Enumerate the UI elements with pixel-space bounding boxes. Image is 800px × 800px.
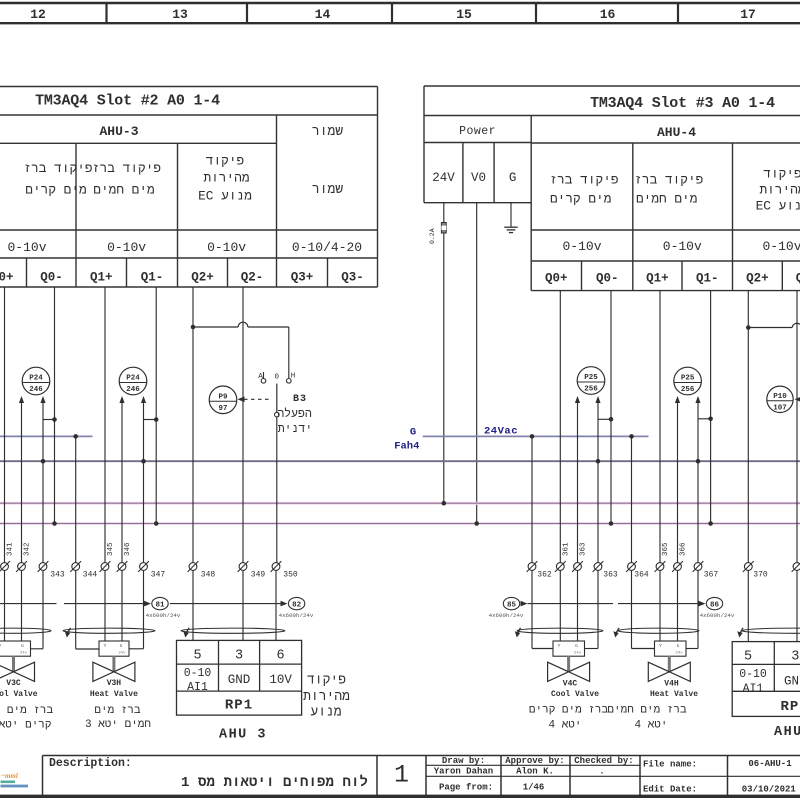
svg-text:06-AHU-1: 06-AHU-1 [748,759,792,769]
svg-text:362: 362 [537,571,552,580]
svg-text:P10: P10 [773,393,787,401]
svg-text:366: 366 [680,542,688,556]
branch 363 to Q0- right [598,418,611,420]
svg-text:0-10v: 0-10v [663,239,702,254]
svg-text:מים חמים: מים חמים [93,183,154,198]
cable shield V4C [517,628,603,633]
cable shield V4H [618,628,699,633]
terminal 341 [0,561,10,572]
wire G branch (terminal 362) [531,436,533,648]
svg-text:363: 363 [580,542,588,556]
svg-text:Checked by:: Checked by: [574,756,633,766]
terminal 370 [743,561,754,572]
svg-text:346: 346 [124,542,132,556]
svg-text:AI1: AI1 [743,682,764,695]
svg-text:342: 342 [24,542,32,556]
wire sensor c (terminal 346) [119,396,124,403]
svg-text:Q2-: Q2- [241,271,264,285]
svg-text:ברז מים: ברז מים [94,705,141,717]
bus 24V common (dark) [0,460,800,462]
branch 343 to Q0- [43,419,55,421]
junction 367-24Vcommon [696,459,701,464]
cable line valve V3H [64,603,145,605]
svg-text:Y: Y [659,643,662,649]
svg-text:Heat Valve: Heat Valve [90,690,138,699]
svg-text:G: G [21,643,24,649]
svg-text:G: G [677,643,680,649]
svg-text:246: 246 [126,386,140,394]
wire Q1+ (terminal 345) [104,287,106,641]
terminal 344 [70,561,81,572]
svg-text:15: 15 [456,7,472,22]
svg-text:EC מנוע: EC מנוע [756,199,800,214]
svg-text:17: 17 [740,7,756,22]
svg-text:81: 81 [155,601,165,609]
terminal 365 [655,561,666,572]
svg-text:107: 107 [773,404,787,412]
svg-text:.: . [599,767,604,777]
svg-text:0-10v: 0-10v [762,239,800,254]
wire sensor d (terminal 347) [141,396,146,403]
wire sensor h (terminal 367) [695,396,700,403]
cable shield RP1 [181,628,285,633]
svg-text:24V: 24V [432,171,455,185]
terminal 342 [16,561,27,572]
cable line valve V4C [521,601,528,607]
ground symbol [504,226,517,228]
svg-text:מים קרים: מים קרים [25,183,86,198]
svg-text:0-10: 0-10 [739,668,767,681]
bus G/24Vac right segment (blue) [423,435,649,437]
wire Q0+ (terminal 341) [4,287,6,641]
svg-text:256: 256 [681,386,695,394]
svg-text:File name:: File name: [643,760,697,770]
svg-text:Edit Date:: Edit Date: [643,785,697,795]
drain arrow V4H [613,628,619,638]
svg-text:5: 5 [193,649,201,664]
svg-text:AHU 3: AHU 3 [219,728,267,743]
svg-text:345: 345 [107,542,115,556]
svg-text:Q1+: Q1+ [90,271,113,285]
wire Q1+ right (terminal 365) [659,291,661,641]
svg-text:TM3AQ4 Slot #3 A0 1-4: TM3AQ4 Slot #3 A0 1-4 [590,95,775,112]
svg-text:Q2+: Q2+ [746,272,769,286]
wire 24V supply [443,203,445,223]
reference bubble P25/256 #2 [674,367,702,395]
svg-text:364: 364 [634,571,649,580]
potentiometer RP1 table [177,640,302,715]
svg-text:AHU-4: AHU-4 [657,125,696,140]
wire sensor b (terminal 343) [40,396,45,403]
svg-text:מהירות: מהירות [203,171,249,186]
valve V3H body [93,662,114,681]
dashed link P10 [795,397,800,403]
svg-text:Fah4: Fah4 [394,441,419,453]
left IO module table TM3AQ4 Slot #2 outline [0,86,378,88]
svg-text:G: G [120,643,123,649]
svg-text:מנוע: מנוע [310,705,341,720]
svg-text:RP1: RP1 [780,699,800,715]
terminal 348 [188,561,199,572]
svg-text:24Vac: 24Vac [484,426,518,438]
svg-text:שמור: שמור [312,182,343,197]
svg-text:361: 361 [562,542,570,556]
svg-text:Y: Y [558,643,561,649]
svg-text:246: 246 [29,386,43,394]
svg-text:6: 6 [277,649,285,664]
wire Q0- [54,287,56,524]
valve V3H actuator [99,641,129,656]
svg-text:פיקוד: פיקוד [307,673,346,688]
valve V4H stem [668,656,671,672]
svg-text:P9: P9 [218,393,228,401]
svg-text:מהירות: מהירות [303,689,350,704]
svg-text:יטא 4: יטא 4 [548,720,581,732]
svg-text:יטא 4: יטא 4 [634,720,667,732]
svg-text:343: 343 [50,571,65,580]
svg-text:0-10v: 0-10v [7,240,46,255]
terminal 364 [626,561,637,572]
svg-text:מהירות: מהירות [759,183,800,198]
svg-text:Approve by:: Approve by: [505,756,564,766]
svg-text:חמים יטא 3: חמים יטא 3 [85,719,151,731]
svg-text:03/10/2021: 03/10/2021 [742,785,797,795]
svg-text:AHU-3: AHU-3 [99,124,138,139]
svg-text:Description:: Description: [49,757,132,770]
terminal 345 [100,561,111,572]
terminal 361 [555,561,566,572]
terminal 346 [117,561,128,572]
svg-text:~mml: ~mml [1,772,18,780]
junction 363-24Vcommon [596,459,601,464]
cable shield V3H [63,628,155,633]
svg-text:24v: 24v [20,652,28,656]
svg-text:Q3+: Q3+ [291,271,314,285]
svg-text:קרים יטא 3: קרים יטא 3 [0,720,52,732]
svg-text:Q0-: Q0- [40,271,63,285]
title block frame [43,755,800,757]
svg-text:AI1: AI1 [187,681,208,694]
terminal 363b [593,561,604,572]
svg-text:ברז מים קרים: ברז מים קרים [529,705,609,717]
svg-text:Q0+: Q0+ [545,272,568,286]
terminal 347 [138,561,149,572]
svg-text:3: 3 [235,649,243,664]
svg-text:4x600h/24v: 4x600h/24v [700,612,735,619]
svg-text:Q1+: Q1+ [646,272,669,286]
svg-text:348: 348 [201,571,216,580]
svg-text:97: 97 [218,405,227,413]
cable shield RP right [742,628,800,633]
svg-text:פיקוד: פיקוד [763,167,800,182]
cable line valve V4H [618,603,699,605]
svg-text:P24: P24 [126,375,140,383]
svg-text:H: H [291,373,296,381]
wire G branch 2 (terminal 364) [631,436,633,648]
svg-text:14: 14 [315,7,331,22]
svg-text:V3C: V3C [6,679,21,688]
cable marker 85 [503,597,519,609]
svg-text:0-10v: 0-10v [107,240,146,255]
svg-text:10V: 10V [269,673,292,687]
svg-text:344: 344 [83,571,98,580]
wire G to ground [510,203,512,227]
junction blue-344 [73,434,78,439]
svg-text:V0: V0 [471,171,486,185]
svg-text:GND: GND [784,675,800,689]
svg-text:G: G [575,643,578,649]
terminal 366 [672,561,683,572]
bus magenta 2 [0,522,800,525]
junction blue-362 [530,434,535,439]
right IO module table TM3AQ4 Slot #3 outline [424,85,800,87]
svg-text:A: A [258,373,263,381]
wire G branch (terminal 344) [75,436,77,649]
svg-text:פיקוד ברז: פיקוד ברז [92,161,161,176]
svg-text:1/46: 1/46 [523,783,545,793]
svg-text:5: 5 [744,650,752,665]
junction blue-364 [629,434,634,439]
terminal 367 [693,561,704,572]
drawing frame top ruler [0,2,800,4]
wire Q2- right (terminal 371) [796,291,798,642]
svg-text:פיקוד ברז: פיקוד ברז [549,173,618,188]
wire Q0+ right (terminal 361) [559,291,561,641]
svg-text:349: 349 [251,571,266,580]
valve V3C stem [12,656,15,672]
wire switch common (terminal 350) [276,417,278,567]
terminal 371 [792,561,800,572]
junction mag2-V0 [474,521,479,526]
svg-text:12: 12 [30,7,46,22]
drain arrow RP1 [183,628,189,638]
svg-text:EC מנוע: EC מנוע [198,189,252,204]
fuse 0.2A [441,223,446,234]
valve V4H body [648,662,669,681]
svg-text:367: 367 [704,571,719,580]
cable line valve V3C [0,603,57,605]
svg-text:Q2+: Q2+ [191,271,214,285]
svg-text:350: 350 [283,571,298,580]
junction 347-24Vcommon [141,459,146,464]
svg-text:Heat Valve: Heat Valve [650,690,698,699]
reference bubble P9/97 [209,386,237,414]
svg-text:GND: GND [228,673,251,687]
valve V3C actuator [0,641,31,656]
valve V4C actuator [553,641,585,656]
reference bubble P24/246 #1 [22,367,50,395]
svg-text:פיקוד ברז: פיקוד ברז [23,161,92,176]
valve V3C body [0,662,14,681]
svg-text:363: 363 [603,571,618,580]
svg-text:4x600h/24v: 4x600h/24v [146,612,181,619]
svg-text:24v: 24v [574,652,582,656]
svg-text:V3H: V3H [107,679,122,688]
svg-text:0.2A: 0.2A [429,228,436,244]
svg-text:82: 82 [292,601,302,609]
svg-text:365: 365 [662,542,670,556]
svg-text:0-10/4-20: 0-10/4-20 [292,240,362,255]
link Q2+ to switch B3 [193,326,238,328]
svg-text:פיקוד ברז: פיקוד ברז [634,173,703,188]
svg-text:מים חמים: מים חמים [636,192,697,207]
valve V4C body [548,662,569,681]
svg-text:ידנית: ידנית [278,423,313,436]
svg-text:Page from:: Page from: [439,783,493,793]
svg-text:V4H: V4H [664,679,679,688]
svg-text:פיקוד: פיקוד [206,154,244,169]
junction mag1-24V [442,501,447,506]
svg-text:לוח מפוחים ויטאות מס 1: לוח מפוחים ויטאות מס 1 [181,775,368,791]
cable shield V3C [0,628,51,633]
wire sensor a (terminal 342) [19,396,24,403]
svg-text:370: 370 [753,571,768,580]
svg-text:Q1-: Q1- [696,272,719,286]
reference bubble P24/246 #2 [119,367,147,395]
svg-text:Y: Y [104,643,107,649]
svg-text:ברז מים חמים: ברז מים חמים [607,705,687,717]
svg-text:TM3AQ4 Slot #2 A0 1-4: TM3AQ4 Slot #2 A0 1-4 [35,93,220,110]
svg-text:Draw by:: Draw by: [442,756,485,766]
svg-text:86: 86 [710,601,720,609]
svg-text:Alon K.: Alon K. [516,767,554,777]
potentiometer RP2 table [732,642,800,717]
svg-text:AHU 4: AHU 4 [774,725,800,740]
wire sensor g (terminal 366) [675,396,680,403]
cable marker 86 [706,597,722,609]
svg-text:24v: 24v [118,652,126,656]
svg-text:הפעלה: הפעלה [277,407,312,421]
valve V4H actuator [655,641,687,656]
svg-text:85: 85 [507,601,517,609]
drain arrow V4C [515,628,521,638]
wire Q0- right [610,291,612,524]
svg-text:P24: P24 [29,375,43,383]
junction 343-24Vcommon [41,459,46,464]
svg-text:347: 347 [151,571,166,580]
cable line RP1 [170,603,281,605]
svg-text:0-10v: 0-10v [207,240,246,255]
svg-text:3: 3 [791,650,799,665]
link Q2+ right to switch B4 [748,327,792,329]
svg-text:4x600h/24v: 4x600h/24v [279,612,314,619]
switch B3 hand/off/auto [261,379,266,384]
dashed link P9 to B3 [238,397,245,403]
svg-text:שמור: שמור [312,124,343,139]
svg-text:256: 256 [584,386,598,394]
junction Q2+ right link [746,325,751,330]
drain arrow V3H [65,628,71,638]
wire sensor e (terminal 363 rot) [575,396,580,403]
svg-text:0: 0 [275,374,280,382]
terminal 343 [38,561,49,572]
svg-text:Cool Valve: Cool Valve [551,690,599,699]
svg-text:16: 16 [600,7,616,22]
terminal 350 [271,561,282,572]
svg-text:Q2-: Q2- [796,272,800,286]
wire Q1- right [710,291,712,524]
reference bubble P25/256 #1 [577,367,605,395]
junction Q2+ link [191,325,196,330]
cable marker 82 [288,597,304,609]
cable marker 81 [152,597,168,609]
wire Q1- [155,287,157,524]
wire Q2- (terminal 349) [242,287,244,640]
svg-text:Q3-: Q3- [341,271,364,285]
reference bubble P10/107 [767,386,793,412]
branch 367 to Q1- right [698,418,711,420]
terminal 363a [572,561,583,572]
svg-text:0-10: 0-10 [184,667,212,680]
svg-text:B3: B3 [293,394,307,405]
svg-text:24v: 24v [675,652,683,656]
svg-text:P25: P25 [584,374,598,382]
svg-text:1: 1 [394,761,409,790]
svg-text:0-10v: 0-10v [562,239,601,254]
svg-text:RP1: RP1 [225,698,253,714]
wire sensor f (terminal 363) [595,396,600,403]
svg-text:P25: P25 [681,375,695,383]
svg-text:341: 341 [7,542,15,556]
svg-text:Power: Power [459,125,496,138]
svg-text:4x600h/24v: 4x600h/24v [489,612,524,619]
drain arrow RP right [737,628,743,638]
wire Q2+ right (terminal 370) [747,291,749,642]
svg-text:Yaron Dahan: Yaron Dahan [434,767,493,777]
svg-text:Q0+: Q0+ [0,271,14,285]
svg-text:G: G [410,427,416,439]
svg-text:G: G [509,171,517,185]
bus G left segment (blue) [0,435,93,437]
valve V4C stem [567,656,570,672]
wire Q2+ (terminal 348) [192,287,194,640]
svg-text:Cool Valve: Cool Valve [0,690,38,699]
wire V0 [476,203,478,524]
valve V3H stem [112,656,115,672]
svg-text:Q0-: Q0- [596,272,619,286]
branch 347 to Q1- [144,419,157,421]
terminal 362 [527,561,538,572]
svg-text:מים קרים: מים קרים [550,192,611,207]
svg-text:V4C: V4C [563,679,578,688]
svg-text:13: 13 [172,7,188,22]
bus magenta 1 [0,502,800,505]
svg-text:Q1-: Q1- [141,271,164,285]
svg-text:ברז מים: ברז מים [7,705,54,717]
terminal 349 [238,561,249,572]
